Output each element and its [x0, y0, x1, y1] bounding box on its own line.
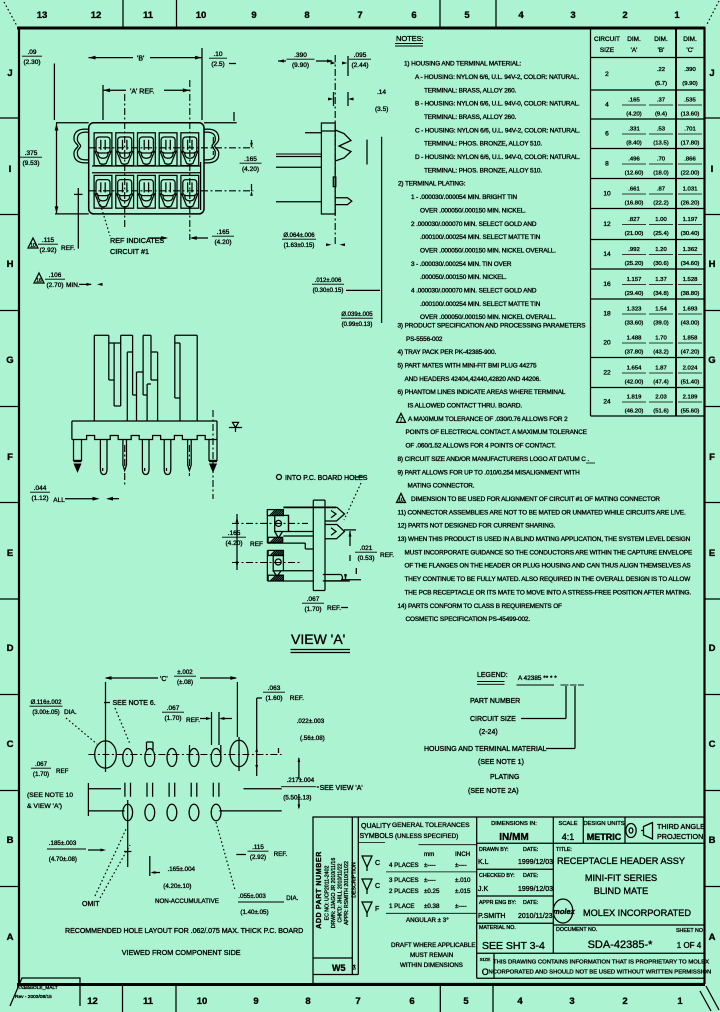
svg-text:Rev - 2003/08/15: Rev - 2003/08/15 — [15, 994, 52, 1000]
svg-text:CIRCUIT: CIRCUIT — [594, 36, 620, 43]
svg-text:13) WHEN THIS PRODUCT IS USED: 13) WHEN THIS PRODUCT IS USED IN A BLIND… — [398, 536, 691, 543]
svg-text:DIMENSION TO BE USED FOR ALIGN: DIMENSION TO BE USED FOR ALIGNMENT OF CI… — [411, 496, 660, 503]
svg-text:TITLE:: TITLE: — [556, 847, 572, 853]
svg-text:±.010: ±.010 — [455, 877, 471, 884]
view A board lock underside — [323, 575, 343, 581]
svg-text:VIEW 'A': VIEW 'A' — [291, 631, 345, 647]
dimension table — [591, 28, 705, 416]
terminal rib band — [92, 165, 200, 167]
svg-text:.22: .22 — [657, 67, 665, 73]
svg-text:±0.38: ±0.38 — [424, 903, 440, 910]
svg-text:(29.40): (29.40) — [625, 291, 644, 297]
svg-text:(51.6): (51.6) — [653, 409, 668, 415]
svg-text:3: 3 — [570, 10, 575, 21]
svg-text:(2.5): (2.5) — [211, 61, 224, 68]
svg-text:ADD PART NUMBER: ADD PART NUMBER — [314, 851, 323, 929]
svg-text:.827: .827 — [628, 217, 639, 223]
svg-text:.14: .14 — [377, 89, 386, 96]
svg-text:8: 8 — [305, 996, 310, 1007]
svg-text:(42.00): (42.00) — [625, 380, 644, 386]
svg-text:LEGEND:: LEGEND: — [477, 672, 508, 679]
svg-text:.067: .067 — [35, 761, 48, 768]
svg-text:(34.8): (34.8) — [653, 291, 668, 297]
svg-text:1.54: 1.54 — [655, 307, 667, 313]
svg-text:7: 7 — [400, 417, 403, 423]
svg-text:(22.2): (22.2) — [653, 201, 668, 207]
svg-text:DRWN: JJAGO JR 2010/11/16: DRWN: JJAGO JR 2010/11/16 — [331, 858, 337, 929]
svg-text:(3.5): (3.5) — [375, 106, 388, 113]
svg-text:DESIGN UNITS: DESIGN UNITS — [583, 821, 624, 827]
svg-text:(46.20): (46.20) — [625, 409, 644, 415]
svg-text:(16.80): (16.80) — [625, 201, 644, 207]
svg-text:.390: .390 — [294, 52, 307, 59]
svg-text:2) TERMINAL PLATING:: 2) TERMINAL PLATING: — [398, 181, 466, 188]
view A hatched wall 3 — [268, 550, 283, 555]
svg-text:D: D — [7, 643, 14, 654]
svg-text:GENERAL TOLERANCES: GENERAL TOLERANCES — [392, 822, 470, 829]
svg-text:.044: .044 — [34, 485, 47, 492]
svg-text:(2.70): (2.70) — [47, 282, 64, 289]
side view — [276, 123, 335, 214]
svg-text:'A': 'A' — [631, 47, 638, 54]
svg-text:(SEE NOTE 1): (SEE NOTE 1) — [478, 759, 524, 766]
terminal row1 col5 — [181, 133, 199, 166]
terminal row2 col2 — [116, 175, 134, 208]
front view row centerlines — [89, 147, 253, 149]
svg-text:10: 10 — [196, 10, 207, 21]
svg-text:DIM.: DIM. — [654, 36, 668, 43]
svg-text:1.362: 1.362 — [683, 247, 698, 253]
svg-text:5) PART MATES WITH MINI-FIT BM: 5) PART MATES WITH MINI-FIT BMI PLUG 442… — [398, 363, 537, 370]
svg-text:W5: W5 — [332, 963, 346, 973]
svg-text:AND HEADERS 42404,42440,42820: AND HEADERS 42404,42440,42820 AND 44206. — [405, 376, 542, 383]
svg-text:.021: .021 — [360, 545, 373, 552]
svg-text:(4.70±.08): (4.70±.08) — [49, 856, 77, 863]
svg-text:APPR: RSMITH 2010/11/22: APPR: RSMITH 2010/11/22 — [344, 861, 350, 925]
svg-text:E: E — [7, 548, 13, 559]
view A housing outline — [267, 507, 336, 581]
svg-text:(43.00): (43.00) — [681, 321, 700, 327]
svg-text:C - HOUSING: NYLON 6/6, U.L.: C - HOUSING: NYLON 6/6, U.L. 94V-2, COLO… — [415, 127, 580, 134]
svg-text:SEE NOTE 6.: SEE NOTE 6. — [113, 700, 156, 707]
svg-text:J: J — [7, 68, 12, 79]
third angle projection symbol — [626, 823, 653, 840]
svg-text:'C': 'C' — [160, 676, 168, 683]
svg-text:SCALE: SCALE — [558, 821, 577, 827]
svg-text:(26.20): (26.20) — [681, 201, 700, 207]
view A hatched wall 1 — [267, 510, 283, 516]
svg-text:(0.99±0.13): (0.99±0.13) — [342, 322, 373, 328]
pin 3 — [123, 440, 127, 471]
revision stamp box bottom-left — [10, 978, 80, 1006]
svg-text:.09: .09 — [27, 49, 36, 56]
svg-text:1: 1 — [674, 10, 680, 21]
svg-text:6: 6 — [605, 131, 609, 138]
view A label note — [277, 475, 282, 480]
terminal row1 col1 — [94, 133, 112, 166]
svg-text:.535: .535 — [684, 98, 696, 104]
svg-text:CIRCUIT #1: CIRCUIT #1 — [110, 247, 149, 256]
svg-text:INTO P.C. BOARD HOLES: INTO P.C. BOARD HOLES — [285, 475, 368, 482]
svg-text:SEE SHT 3-4: SEE SHT 3-4 — [482, 940, 545, 952]
quality symbols — [359, 823, 394, 843]
svg-text:.067: .067 — [307, 596, 320, 603]
svg-text:(34.60): (34.60) — [681, 261, 700, 267]
svg-text:OVER .000050/.000150 MIN. NICK: OVER .000050/.000150 MIN. NICKEL. — [420, 207, 526, 214]
svg-text:h:\data\OLE_MALT: h:\data\OLE_MALT — [17, 985, 58, 991]
svg-text:.185±.003: .185±.003 — [49, 840, 77, 847]
svg-text:CHECKED BY:: CHECKED BY: — [479, 873, 515, 879]
svg-text:'C': 'C' — [686, 47, 693, 54]
molex logo — [553, 899, 576, 923]
svg-text:(37.80): (37.80) — [625, 350, 644, 356]
pin 4 — [142, 440, 149, 475]
svg-text:6: 6 — [411, 10, 416, 21]
front view connector body — [55, 123, 237, 214]
svg-text:12: 12 — [87, 996, 98, 1007]
svg-text:OVER .000050/.000150 MIN. NICK: OVER .000050/.000150 MIN. NICKEL OVERALL… — [420, 314, 556, 321]
svg-text:MATING CONNECTOR.: MATING CONNECTOR. — [408, 483, 475, 490]
svg-text:(5.50±.13): (5.50±.13) — [283, 795, 311, 802]
svg-text:F: F — [709, 452, 715, 463]
note: triangle 16 .106/(2.70) MIN. — [34, 273, 44, 283]
svg-text:7: 7 — [355, 996, 360, 1007]
svg-text:I: I — [9, 164, 12, 175]
svg-text:(51.40): (51.40) — [681, 380, 700, 386]
terminal row2 col4 — [159, 175, 177, 208]
svg-text:.331: .331 — [628, 127, 639, 133]
side view latch barb — [335, 130, 351, 161]
svg-text:10: 10 — [30, 243, 36, 249]
svg-text:SHEET NO.: SHEET NO. — [676, 928, 704, 934]
svg-text:2 .000030/.000070 MIN. SELE: 2 .000030/.000070 MIN. SELECT GOLD AND — [411, 221, 537, 228]
svg-text:4 PLACES: 4 PLACES — [389, 862, 419, 869]
svg-text:F: F — [375, 906, 379, 913]
svg-text:(SEE NOTE 2A): (SEE NOTE 2A) — [468, 788, 519, 795]
svg-text:B - HOUSING: NYLON 6/6, U.L.: B - HOUSING: NYLON 6/6, U.L. 94V-0, COLO… — [415, 101, 580, 108]
svg-text:±----: ±---- — [455, 903, 467, 910]
svg-text:ALL: ALL — [53, 497, 65, 504]
svg-text:(4.20±.10): (4.20±.10) — [163, 883, 191, 890]
svg-text:Ø.039±.005: Ø.039±.005 — [341, 312, 373, 318]
svg-text:14: 14 — [603, 251, 611, 258]
svg-text:1.70: 1.70 — [655, 336, 667, 342]
hole layout row1 centerline — [88, 754, 281, 756]
svg-text:.10: .10 — [213, 51, 222, 58]
svg-text:(4.20): (4.20) — [215, 239, 232, 246]
svg-text:(9.90): (9.90) — [292, 62, 309, 69]
svg-text:1.323: 1.323 — [627, 307, 642, 313]
svg-text:16: 16 — [36, 278, 42, 284]
svg-text:DATE:: DATE: — [523, 873, 538, 879]
svg-text:(9.90): (9.90) — [682, 81, 697, 87]
svg-text:'B': 'B' — [137, 56, 144, 63]
legend block — [424, 672, 584, 795]
svg-text:1.00: 1.00 — [655, 217, 667, 223]
svg-text:POINTS OF ELECTRICAL CONTACT.: POINTS OF ELECTRICAL CONTACT. A MAXIMUM … — [406, 429, 587, 436]
svg-text:SEE VIEW 'A': SEE VIEW 'A' — [320, 785, 363, 792]
svg-text:SDA-42385-*: SDA-42385-* — [588, 939, 654, 951]
svg-text:H: H — [7, 259, 14, 270]
svg-text:K.L: K.L — [478, 859, 489, 866]
pin 5 — [164, 440, 171, 475]
side view right extension lines — [381, 137, 383, 323]
svg-text:OMIT: OMIT — [82, 901, 100, 908]
hole layout phantom middle row — [124, 783, 126, 797]
title block header cells — [491, 821, 625, 843]
title block — [313, 817, 705, 984]
svg-text:2 PLACES: 2 PLACES — [389, 888, 419, 895]
svg-text:C: C — [709, 739, 716, 750]
svg-text:BLIND MATE: BLIND MATE — [594, 886, 648, 896]
svg-text:REF: REF — [250, 541, 263, 548]
svg-text:molex: molex — [553, 907, 576, 916]
svg-text:A: A — [709, 932, 716, 943]
svg-text:1.157: 1.157 — [627, 277, 642, 283]
svg-text:NOTES:: NOTES: — [396, 34, 424, 43]
svg-text:REF.: REF. — [380, 552, 394, 559]
general tolerances — [386, 822, 477, 969]
drawn/checked/approved cells — [479, 847, 538, 931]
svg-text:METRIC: METRIC — [587, 832, 622, 842]
svg-text:(47.4): (47.4) — [653, 380, 668, 386]
svg-text:(4.20): (4.20) — [242, 166, 259, 173]
svg-text:1.693: 1.693 — [683, 307, 698, 313]
terminal row2 col3 — [138, 175, 156, 208]
svg-text:(1.70): (1.70) — [33, 771, 49, 778]
svg-text:(30.6): (30.6) — [653, 261, 668, 267]
svg-text:(4.20): (4.20) — [626, 112, 641, 118]
side view board lock peg — [335, 198, 352, 205]
svg-text:REF: REF — [56, 768, 69, 775]
svg-text:2.024: 2.024 — [683, 366, 698, 372]
svg-text:.866: .866 — [684, 157, 696, 163]
svg-text:2: 2 — [622, 996, 627, 1007]
svg-text:C: C — [375, 883, 380, 890]
pin 1 — [74, 440, 82, 474]
svg-text:(UNLESS SPECIFIED): (UNLESS SPECIFIED) — [395, 833, 458, 840]
svg-text:.165: .165 — [244, 156, 257, 163]
svg-text:9) PART ALLOWS FOR UP TO .010/: 9) PART ALLOWS FOR UP TO .010/0.254 MISA… — [398, 469, 581, 476]
svg-text:J: J — [709, 68, 714, 79]
svg-text:(SEE NOTE 10: (SEE NOTE 10 — [27, 792, 73, 799]
svg-text:THIS DRAWING CONTAINS INFORMAT: THIS DRAWING CONTAINS INFORMATION THAT I… — [493, 960, 709, 966]
note: triangle 10 .115/(2.92) REF. — [28, 238, 38, 248]
svg-text:5: 5 — [463, 996, 469, 1007]
svg-text:7: 7 — [357, 10, 362, 21]
svg-text:1.37: 1.37 — [655, 277, 666, 283]
dim 'A' REF. — [103, 89, 126, 91]
svg-text:Ø.116±.002: Ø.116±.002 — [31, 700, 63, 706]
svg-text:(3.00±.05): (3.00±.05) — [32, 710, 59, 716]
svg-text:9: 9 — [251, 10, 256, 21]
view A pc board section — [313, 500, 325, 590]
svg-text:THIRD ANGLE: THIRD ANGLE — [657, 822, 705, 831]
svg-text:(25.4): (25.4) — [653, 231, 668, 237]
svg-text:DESCRIPTION: DESCRIPTION — [352, 862, 358, 898]
svg-text:OVER .000050/.000150 MIN. NICK: OVER .000050/.000150 MIN. NICKEL OVERALL… — [420, 248, 556, 255]
svg-text:Ø.064±.006: Ø.064±.006 — [283, 233, 315, 239]
svg-text:D - HOUSING: NYLON 6/6, U.L.: D - HOUSING: NYLON 6/6, U.L. 94V-0, COLO… — [415, 154, 580, 161]
svg-text:DRAFT WHERE APPLICABLE: DRAFT WHERE APPLICABLE — [391, 942, 475, 949]
leader circuit #1 — [97, 193, 110, 236]
svg-text:SIZE: SIZE — [600, 47, 614, 54]
svg-text:EC NO: UCP2011-2402: EC NO: UCP2011-2402 — [325, 866, 331, 921]
svg-text:.115: .115 — [252, 844, 264, 851]
svg-text:C: C — [7, 739, 14, 750]
svg-text:(0.53): (0.53) — [358, 555, 375, 562]
svg-text:TERMINAL: BRASS, ALLOY 260.: TERMINAL: BRASS, ALLOY 260. — [424, 114, 517, 121]
svg-text:IN/MM: IN/MM — [499, 832, 528, 843]
flatness tolerance symbol — [229, 422, 242, 432]
svg-text:OF THE FLANGES ON THE HEADER O: OF THE FLANGES ON THE HEADER OR PLUG HOU… — [405, 563, 691, 570]
svg-text:(1.63±0.15): (1.63±0.15) — [284, 243, 315, 249]
svg-text:G: G — [6, 355, 13, 366]
svg-text:.165: .165 — [628, 98, 640, 104]
hole layout row1 ovals — [123, 749, 133, 767]
svg-text:.53: .53 — [657, 127, 666, 133]
dim 'B' overall — [89, 57, 134, 59]
svg-text:H: H — [709, 259, 716, 270]
dim dia .055 — [216, 822, 235, 890]
svg-text:A MAXIMUM TOLERANCE OF .030/0.: A MAXIMUM TOLERANCE OF .030/0.76 ALLOWS … — [408, 416, 568, 423]
svg-text:1.031: 1.031 — [683, 187, 698, 193]
svg-text:2: 2 — [622, 10, 627, 21]
svg-text:SIZE: SIZE — [480, 957, 491, 963]
svg-text:.70: .70 — [657, 157, 666, 163]
svg-text:.095: .095 — [354, 52, 367, 59]
svg-text:.055±.003: .055±.003 — [238, 893, 266, 900]
svg-text:(43.2): (43.2) — [653, 350, 668, 356]
svg-text:9: 9 — [253, 996, 258, 1007]
svg-text:ANGULAR ± 3°: ANGULAR ± 3° — [406, 917, 449, 924]
svg-text:2010/11/23: 2010/11/23 — [518, 913, 553, 920]
svg-text:E: E — [709, 548, 715, 559]
svg-text:(1.12): (1.12) — [32, 495, 49, 502]
svg-text:P.SMITH: P.SMITH — [478, 913, 506, 920]
svg-text:(2.44): (2.44) — [352, 62, 369, 69]
svg-text:S4: S4 — [352, 964, 357, 970]
svg-text:(2.92): (2.92) — [40, 247, 57, 254]
svg-text:.063: .063 — [268, 685, 281, 692]
svg-text:1) HOUSING AND TERMINAL MATERI: 1) HOUSING AND TERMINAL MATERIAL: — [404, 61, 521, 68]
svg-text:(±.08): (±.08) — [177, 679, 193, 686]
svg-text:(2.92): (2.92) — [250, 854, 266, 861]
side view centerline — [334, 55, 336, 246]
svg-text:2.189: 2.189 — [683, 395, 698, 401]
svg-text:(1.70): (1.70) — [305, 606, 322, 613]
ruler dividers — [123, 0, 497, 1012]
svg-text:REF.: REF. — [186, 717, 200, 724]
svg-text:11) CONNECTOR ASSEMBLIES ARE N: 11) CONNECTOR ASSEMBLIES ARE NOT TO BE M… — [398, 509, 687, 516]
pin 6 — [188, 440, 192, 471]
svg-text:.87: .87 — [657, 187, 665, 193]
svg-text:DATE:: DATE: — [523, 847, 538, 853]
svg-text:I: I — [711, 164, 714, 175]
svg-text:DRAWN BY:: DRAWN BY: — [479, 847, 509, 853]
svg-text:TERMINAL: PHOS. BRONZE, ALLOY: TERMINAL: PHOS. BRONZE, ALLOY 510. — [424, 167, 542, 174]
svg-text:(17.80): (17.80) — [681, 141, 700, 147]
svg-text:±----: ±---- — [455, 862, 467, 869]
svg-text:1 PLACE: 1 PLACE — [389, 903, 414, 910]
svg-text:'A' REF.: 'A' REF. — [130, 88, 155, 95]
svg-text:±.015: ±.015 — [455, 888, 471, 895]
svg-text:PROJECTION: PROJECTION — [657, 832, 703, 841]
view A hatched wall 2 — [268, 537, 283, 542]
svg-text:MINI-FIT SERIES: MINI-FIT SERIES — [585, 873, 657, 883]
svg-text:6) PHANTOM LINES INDICATE AREA: 6) PHANTOM LINES INDICATE AREAS WHERE TE… — [398, 389, 566, 396]
svg-text:TERMINAL: PHOS. BRONZE, ALLOY: TERMINAL: PHOS. BRONZE, ALLOY 510. — [424, 141, 542, 148]
svg-text:MUST INCORPORATE GUIDANCE SO T: MUST INCORPORATE GUIDANCE SO THE CONDUCT… — [405, 549, 693, 556]
svg-text:A: A — [7, 932, 14, 943]
svg-text:QUALITY: QUALITY — [361, 823, 391, 830]
svg-text:MATERIAL NO.: MATERIAL NO. — [479, 925, 516, 931]
svg-text:1: 1 — [677, 996, 683, 1007]
svg-text:10: 10 — [603, 191, 611, 198]
svg-text:DIA.: DIA. — [64, 709, 77, 716]
svg-text:.992: .992 — [628, 247, 639, 253]
svg-text:D: D — [709, 643, 716, 654]
svg-text:'B': 'B' — [658, 47, 665, 54]
svg-text:16: 16 — [603, 281, 611, 288]
svg-text:.37: .37 — [657, 98, 665, 104]
svg-text:.375: .375 — [25, 150, 38, 157]
svg-text:5: 5 — [464, 10, 470, 21]
svg-text:.106: .106 — [49, 272, 62, 279]
svg-text:4 .000030/.000070 MIN. SELE: 4 .000030/.000070 MIN. SELECT GOLD AND — [411, 288, 537, 295]
svg-text:.701: .701 — [684, 127, 695, 133]
svg-text:(25.20): (25.20) — [625, 261, 644, 267]
svg-text:22: 22 — [603, 370, 611, 377]
svg-text:(18.0): (18.0) — [653, 171, 668, 177]
view A terminal sections — [273, 515, 288, 576]
view A centerlines — [232, 522, 308, 524]
svg-text:4: 4 — [605, 102, 609, 109]
svg-text:14) PARTS CONFORM TO CLASS B R: 14) PARTS CONFORM TO CLASS B REQUIREMENT… — [398, 603, 563, 610]
svg-text:1.197: 1.197 — [683, 217, 698, 223]
svg-text:THE PCB RECEPTACLE OR ITS MATE: THE PCB RECEPTACLE OR ITS MATE TO MOVE I… — [405, 589, 692, 596]
svg-text:REF.: REF. — [274, 851, 288, 858]
svg-text:DIM.: DIM. — [627, 36, 641, 43]
hole layout: mounting holes — [95, 741, 117, 768]
svg-text:.000050/.000150 MIN. NICKEL.: .000050/.000150 MIN. NICKEL. — [420, 274, 507, 281]
svg-text:A 42385 ** * *: A 42385 ** * * — [518, 675, 557, 682]
svg-text:(1.70): (1.70) — [165, 715, 182, 722]
svg-text:IS ALLOWED CONTACT THRU. BOARD: IS ALLOWED CONTACT THRU. BOARD. — [408, 403, 523, 410]
svg-text:.000100/.000254 MIN. SELECT MA: .000100/.000254 MIN. SELECT MATTE TIN — [420, 301, 541, 308]
svg-text:REF INDICATES: REF INDICATES — [110, 236, 164, 245]
terminal row1 col2 — [116, 133, 134, 166]
svg-text:(4.20): (4.20) — [226, 540, 243, 547]
svg-text:(13.5): (13.5) — [653, 141, 668, 147]
svg-text:(55.60): (55.60) — [681, 409, 700, 415]
svg-text:C: C — [375, 860, 380, 867]
svg-text:WITHIN DIMENSIONS: WITHIN DIMENSIONS — [400, 962, 463, 969]
svg-text:±----: ±---- — [424, 877, 436, 884]
svg-text:4: 4 — [517, 996, 523, 1007]
svg-text:(22.00): (22.00) — [681, 171, 700, 177]
svg-text:(9.4): (9.4) — [655, 112, 667, 118]
svg-text:18: 18 — [603, 311, 611, 318]
svg-text:COSMETIC SPECIFICATION PS-4549: COSMETIC SPECIFICATION PS-45499-002. — [406, 616, 531, 623]
svg-text:(8.40): (8.40) — [626, 141, 641, 147]
pin 7 — [209, 440, 217, 474]
svg-text:8: 8 — [605, 161, 609, 168]
svg-text:13: 13 — [37, 10, 48, 21]
svg-text:1 OF 4: 1 OF 4 — [677, 941, 702, 950]
dim .115/(2.92) REF right — [236, 854, 246, 856]
svg-text:(30.40): (30.40) — [681, 231, 700, 237]
